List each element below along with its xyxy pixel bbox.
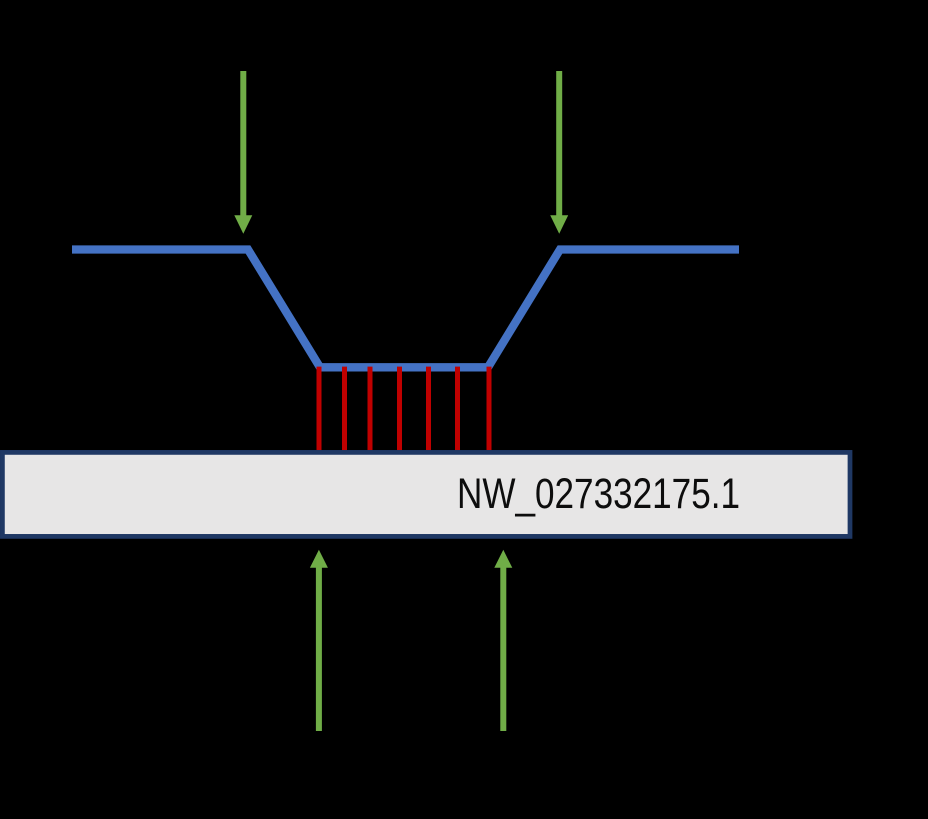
red alignment tick 7	[487, 367, 492, 452]
scaffold box NW_027332175.1	[2, 452, 850, 536]
green arrow top-right (down)	[550, 71, 568, 234]
red alignment tick 6	[455, 367, 460, 452]
red alignment tick 1	[317, 367, 322, 452]
green arrow bottom-left (up)	[310, 550, 328, 731]
green arrow bottom-right (up)	[494, 550, 512, 731]
red alignment tick 5	[426, 367, 431, 452]
red alignment tick 3	[368, 367, 373, 452]
red alignment tick 4	[397, 367, 402, 452]
green arrow top-left (down)	[234, 71, 252, 234]
blue coverage polyline	[72, 250, 739, 368]
red alignment tick 2	[342, 367, 347, 452]
svg-text:NW_027332175.1: NW_027332175.1	[457, 471, 740, 518]
